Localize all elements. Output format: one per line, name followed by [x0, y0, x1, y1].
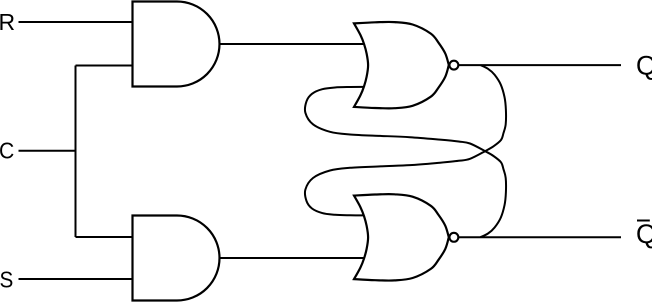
NOR2 output bubble [449, 233, 458, 242]
wire C branch vertical [75, 66, 77, 238]
svg-text:Q: Q [636, 219, 652, 249]
wire C branch to AND1 lower input [76, 65, 133, 67]
wire C branch to AND2 upper input [76, 236, 133, 238]
AND gate U2 (bottom) [133, 216, 220, 301]
wire feedback from Qbar to NOR1 lower input [305, 87, 506, 237]
wire AND1 output to NOR1 upper input [220, 43, 367, 45]
wire S input to AND2 [19, 278, 133, 280]
node Qbar overline [637, 220, 650, 222]
NOR gate U3 (top) [354, 22, 449, 108]
wire feedback from Q to NOR2 upper input [305, 65, 506, 215]
svg-text:R: R [0, 9, 15, 35]
wire Qbar output [459, 236, 621, 238]
NOR1 output bubble [449, 61, 458, 70]
wire AND2 output to NOR2 lower input [220, 257, 367, 259]
wire R input to AND1 [19, 21, 133, 23]
svg-text:C: C [0, 138, 14, 164]
AND gate U1 (top) [133, 2, 220, 87]
svg-text:S: S [0, 266, 13, 292]
wire C input [19, 150, 76, 152]
svg-text:Q: Q [636, 50, 652, 80]
wire Q output [459, 64, 621, 66]
NOR gate U4 (bottom) [354, 194, 449, 280]
